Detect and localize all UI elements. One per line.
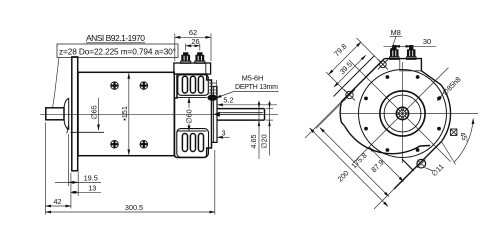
dim 87.9 <box>369 147 404 182</box>
left view: motor side elevation <box>40 53 278 171</box>
terminal block (rear, seen through) <box>400 59 422 71</box>
bearing boss ref line behind flange <box>71 131 105 133</box>
svg-text:M8: M8 <box>391 28 401 37</box>
centerline horizontal (left view) <box>40 113 278 115</box>
dim dia20 (shaft) <box>269 101 271 156</box>
vent cover plate (lower) <box>177 129 209 158</box>
svg-text:19.5: 19.5 <box>84 173 98 182</box>
svg-text:79.8: 79.8 <box>332 42 348 58</box>
mounting flange plate <box>72 57 78 171</box>
svg-text:300.5: 300.5 <box>125 203 143 212</box>
svg-text:5.2: 5.2 <box>223 96 233 105</box>
terminal cap <box>174 63 211 74</box>
svg-text:z=28 Do=22.225 m=0.794 a=30°: z=28 Do=22.225 m=0.794 a=30° <box>59 47 176 57</box>
dim 30 (stud spacing) <box>384 45 437 47</box>
flange plate outline: left flat, top-left edge, top flat, block side, right corner arc <box>384 59 450 142</box>
bolt circle holes (8x) <box>437 127 441 131</box>
svg-text:∅20: ∅20 <box>260 134 269 148</box>
dia60 section edges <box>178 96 207 98</box>
dim 5.2 <box>211 101 213 108</box>
dim 13 <box>70 173 72 209</box>
dim 175.8 <box>320 128 389 197</box>
through-bolt heads (4x) <box>111 82 119 90</box>
svg-text:4.65: 4.65 <box>249 134 258 148</box>
spigot circle dia85h8 <box>380 91 425 136</box>
svg-text:42: 42 <box>53 197 61 206</box>
svg-text:ANSI B92.1-1970: ANSI B92.1-1970 <box>86 33 145 43</box>
jog from contour to chamfer <box>402 159 414 171</box>
svg-text:87.9: 87.9 <box>369 158 385 174</box>
terminal studs M8 (left view) <box>184 53 188 56</box>
svg-text:DEPTH 13mm: DEPTH 13mm <box>235 84 278 91</box>
spline spec note ANSI B92.1-1970 <box>86 42 145 44</box>
leader from spline spec box to stub shaft <box>53 58 59 108</box>
dim 39.5 <box>334 55 366 87</box>
motor stator body <box>78 72 174 155</box>
centerlines (right view) <box>341 113 478 115</box>
terminal bracket (hidden) at rear <box>208 80 216 95</box>
svg-text:13: 13 <box>88 183 96 192</box>
dim 3 (boss protrusion) <box>213 133 215 141</box>
corner holes with center marks <box>380 61 387 68</box>
svg-text:M5-6H: M5-6H <box>242 74 264 83</box>
svg-text:45°: 45° <box>458 131 471 145</box>
svg-text:175.8: 175.8 <box>349 151 368 170</box>
svg-text:∅60: ∅60 <box>185 109 194 123</box>
vent slots (lower group) <box>182 134 187 152</box>
hole dia11 (bottom-right) <box>417 159 426 168</box>
right view: flange end elevation <box>334 46 479 190</box>
vent slots (upper group) <box>182 76 187 93</box>
rear boss step (3mm) <box>212 87 218 143</box>
svg-text:30: 30 <box>423 37 431 46</box>
splined stub shaft (left end) <box>46 108 64 120</box>
dim 26 (stud spacing) <box>185 44 187 51</box>
arrowhead at shaft root on centerline <box>214 112 220 117</box>
dim 19.5 <box>67 134 69 186</box>
terminal studs M8 (right view) <box>393 46 397 50</box>
dim square 151 (body height ref) <box>128 73 130 155</box>
corner hole square (right) <box>451 129 457 135</box>
dim 62 (cap width) <box>174 34 176 62</box>
svg-text:26: 26 <box>191 37 199 46</box>
dim dia60 (rear housing) <box>188 97 190 108</box>
dim dia65 (boss) <box>98 98 100 130</box>
svg-text:∅85h8: ∅85h8 <box>440 75 462 97</box>
bottom-right chamfer edge (carries dia11 hole) <box>394 142 442 190</box>
M5 tapped hole symbol <box>208 95 217 100</box>
chamfer companion line along top-left edge <box>334 56 375 97</box>
svg-text:62: 62 <box>189 28 197 37</box>
svg-text:∅65: ∅65 <box>90 105 99 119</box>
svg-text:∅11: ∅11 <box>429 162 445 178</box>
vent cover plate (upper) <box>178 75 209 96</box>
svg-text:▪151: ▪151 <box>120 106 129 121</box>
svg-text:200: 200 <box>336 169 351 184</box>
svg-text:3: 3 <box>221 129 225 138</box>
inner circle <box>384 95 421 132</box>
splined shaft bore <box>396 107 408 119</box>
output shaft (right, splined) <box>217 108 265 110</box>
front bearing hub profile <box>64 98 69 129</box>
dim 42 <box>45 123 47 215</box>
dim 45 degrees (chamfer angle) <box>454 119 473 163</box>
dim 4.65 (spline) <box>258 101 260 160</box>
dim 200 <box>310 128 388 206</box>
lower-left casting contour arc <box>345 126 431 154</box>
dim 300.5 (overall length) <box>214 150 216 215</box>
motor body circle (behind flange) <box>359 70 447 158</box>
dim 79.8 <box>329 42 362 75</box>
rear housing (commutator end) <box>175 74 212 157</box>
